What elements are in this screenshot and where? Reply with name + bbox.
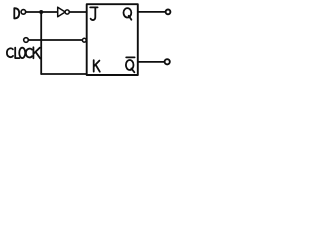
inverter U1 triangle: [58, 7, 65, 17]
output terminal Q-bar: [165, 59, 170, 64]
wire CLOCK to clock bubble: [28, 39, 82, 41]
input terminal D: [21, 10, 26, 15]
wire to K input: [41, 73, 86, 75]
pin label J: [90, 7, 97, 20]
flip-flop U2 box: [87, 4, 138, 75]
input terminal CLOCK: [24, 38, 29, 43]
label D: [14, 8, 19, 18]
clock input bubble: [82, 38, 86, 42]
pin label Q: [124, 8, 132, 20]
pin label Q-bar: [126, 57, 135, 72]
label CLOCK: [7, 47, 40, 58]
wire Q-bar output: [138, 61, 165, 63]
wire Q output: [138, 11, 166, 13]
wire junction down: [40, 12, 42, 74]
node junction dot: [39, 10, 43, 14]
wire D to inverter: [26, 11, 58, 13]
inverter U1 bubble: [65, 10, 69, 14]
output terminal Q: [166, 10, 171, 15]
pin label K: [94, 60, 100, 71]
wire inverter to J input: [69, 11, 87, 13]
